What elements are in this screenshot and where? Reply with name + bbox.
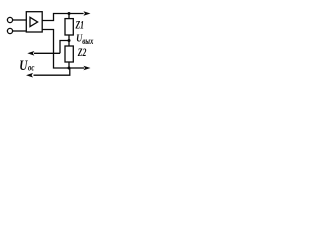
amplifier box U1 <box>26 12 42 32</box>
impedance Z2 box <box>65 46 73 62</box>
impedance Z1 box <box>65 19 73 35</box>
input terminal circle bottom <box>7 28 12 33</box>
op-amp triangle <box>30 17 38 26</box>
wire input bottom <box>13 30 27 32</box>
wire feedback return <box>34 68 70 75</box>
wire Z2 bottom stub <box>68 62 70 68</box>
arrow feedback upper left <box>27 51 60 56</box>
svg-text:вых: вых <box>82 36 93 46</box>
arrow output top right <box>84 11 91 16</box>
wire output step <box>42 14 83 21</box>
wire input top <box>13 19 27 21</box>
wire amp common stub <box>42 30 68 69</box>
wire Z2 top stub <box>68 41 70 47</box>
node feedback tap junction <box>68 39 71 42</box>
wire feedback tap <box>60 41 69 54</box>
svg-text:Z1: Z1 <box>75 19 84 32</box>
arrow common bottom right <box>71 66 91 71</box>
svg-text:Z2: Z2 <box>77 47 86 60</box>
node output top junction <box>68 12 71 15</box>
svg-text:U: U <box>19 56 28 73</box>
input terminal circle top <box>7 17 12 22</box>
wire Z1 top stub <box>68 14 70 19</box>
svg-text:ос: ос <box>28 62 35 72</box>
node common junction <box>68 67 71 70</box>
arrow feedback lower left <box>26 73 33 78</box>
wire Z1 bottom stub <box>68 35 70 41</box>
